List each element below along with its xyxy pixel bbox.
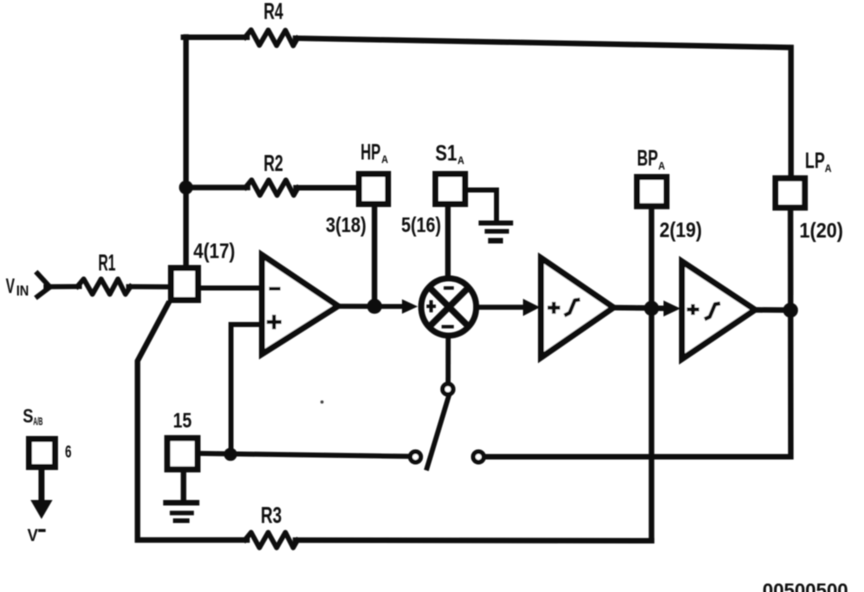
svg-text:LP: LP xyxy=(805,148,825,173)
svg-text:A/B: A/B xyxy=(33,416,43,428)
svg-text:V: V xyxy=(6,274,15,298)
svg-text:S1: S1 xyxy=(435,141,457,166)
svg-text:S: S xyxy=(23,407,34,428)
svg-text:A: A xyxy=(658,161,665,173)
svg-text:6: 6 xyxy=(65,442,72,462)
svg-text:R2: R2 xyxy=(264,150,284,176)
svg-text:R4: R4 xyxy=(264,0,284,24)
svg-text:IN: IN xyxy=(16,283,29,300)
svg-text:A: A xyxy=(381,154,388,166)
svg-text:4(17): 4(17) xyxy=(193,239,235,263)
svg-text:A: A xyxy=(825,163,832,175)
svg-text:R1: R1 xyxy=(98,250,116,276)
svg-text:A: A xyxy=(458,155,465,167)
svg-text:1(20): 1(20) xyxy=(799,219,843,243)
svg-text:BP: BP xyxy=(637,145,658,170)
svg-text:5(16): 5(16) xyxy=(401,213,441,237)
svg-text:HP: HP xyxy=(361,140,381,165)
svg-text:V: V xyxy=(27,525,38,545)
svg-text:R3: R3 xyxy=(261,502,282,528)
svg-text:2(19): 2(19) xyxy=(660,218,702,242)
svg-text:15: 15 xyxy=(173,408,192,432)
svg-text:00500500: 00500500 xyxy=(763,581,849,592)
svg-text:3(18): 3(18) xyxy=(326,213,367,237)
